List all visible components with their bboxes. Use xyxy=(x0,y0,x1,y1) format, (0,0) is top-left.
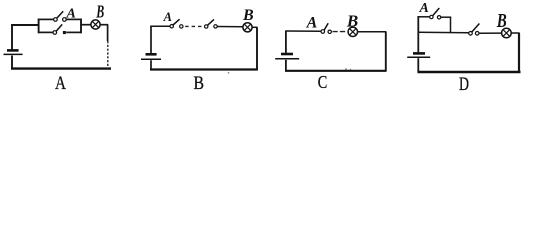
switch S4 blade xyxy=(208,19,215,25)
wire: D bottom xyxy=(418,71,521,73)
wire: B left vertical top xyxy=(150,26,152,53)
lamp L2 circle xyxy=(243,23,252,32)
lamp L4 circle xyxy=(502,28,512,38)
switch S7 pivot circle xyxy=(469,32,473,36)
wire: C dashed to lamp xyxy=(333,31,347,33)
wire: B right edge xyxy=(256,27,258,70)
wire: A right edge solid part xyxy=(107,25,109,41)
wire: D left vertical bottom xyxy=(417,58,419,72)
switch S2 blade xyxy=(56,24,62,31)
svg-text:B: B xyxy=(346,12,358,31)
svg-text:A: A xyxy=(55,74,67,94)
svg-text:D: D xyxy=(459,75,469,95)
svg-text:B: B xyxy=(242,7,254,24)
svg-text:C: C xyxy=(318,72,328,92)
switch S7 right contact circle xyxy=(475,32,479,36)
wire: A right edge faded dashed part xyxy=(107,41,109,68)
wire: D raised branch down xyxy=(450,17,452,33)
battery BT2 short plate xyxy=(146,53,157,56)
wire: C left vertical bottom xyxy=(285,60,287,72)
svg-text:A: A xyxy=(419,1,429,16)
wire: A lamp to right corner xyxy=(100,24,108,26)
wire: A left vertical bottom xyxy=(11,56,13,70)
switch S2 right contact (filled square blob in scan) xyxy=(63,31,66,34)
svg-text:B: B xyxy=(96,1,105,21)
switch S3 blade xyxy=(173,19,180,25)
wire: A box to lamp xyxy=(81,24,91,26)
switch S3 pivot circle xyxy=(170,25,173,28)
wire: B dashed middle xyxy=(185,25,203,27)
lamp L1 circle xyxy=(91,20,100,29)
wire: C bottom xyxy=(285,70,387,72)
svg-text:A: A xyxy=(306,15,318,32)
wire: D right edge xyxy=(518,33,520,73)
switch S5 pivot circle xyxy=(321,30,325,34)
wire: B switch to lamp xyxy=(217,26,243,28)
switch S4 pivot circle xyxy=(205,25,208,28)
switch S2 pivot circle xyxy=(53,31,57,35)
switch S7 blade xyxy=(472,24,480,32)
battery BT4 short plate xyxy=(413,52,425,55)
switch S6 pivot circle xyxy=(430,15,433,18)
lamp L2 cross xyxy=(244,24,251,31)
switch S1 right contact circle xyxy=(63,18,67,22)
svg-text:A: A xyxy=(66,6,76,21)
wire: B lamp to right corner xyxy=(252,26,258,28)
wire: B left vertical bottom xyxy=(150,60,152,70)
lamp L3 cross xyxy=(349,28,356,35)
switch S1 blade xyxy=(57,11,64,18)
switch S6 right contact circle xyxy=(437,16,440,19)
wire: C top left xyxy=(285,30,321,32)
battery BT3 short plate xyxy=(281,53,293,56)
wire: D main top left xyxy=(418,31,469,34)
lamp L4 cross xyxy=(503,30,510,37)
switch S3 right contact circle xyxy=(180,25,183,28)
wire: D switch to lamp xyxy=(479,32,501,34)
battery BT1 short plate xyxy=(7,49,19,52)
wire: A mid left into box xyxy=(11,24,39,26)
battery BT1 long plate xyxy=(4,53,23,55)
scan speck near C bottom wire xyxy=(345,68,347,70)
wire: A bottom xyxy=(11,67,111,69)
wire: A box left edge xyxy=(38,19,40,34)
switch S1 pivot circle xyxy=(54,18,58,22)
wire: C lamp to right corner xyxy=(357,31,386,33)
battery BT4 long plate xyxy=(407,56,430,58)
wire: A box bottom branch left xyxy=(39,31,53,33)
wire: D lamp to right corner xyxy=(511,32,519,34)
lamp L3 circle xyxy=(348,27,357,36)
svg-text:B: B xyxy=(496,11,507,32)
wire: A box bottom branch right xyxy=(66,31,81,33)
battery BT3 long plate xyxy=(275,58,299,60)
wire: D left vertical (raised top to battery) xyxy=(417,16,419,52)
wire: A box top branch right xyxy=(66,18,81,20)
svg-text:A: A xyxy=(163,10,172,24)
wire: B bottom xyxy=(150,68,258,70)
wire: D raised branch right xyxy=(441,16,451,18)
switch S4 right contact circle xyxy=(214,25,217,28)
wire: C right edge xyxy=(385,32,387,72)
switch S6 blade xyxy=(433,8,440,16)
wire: A box right edge xyxy=(80,19,82,34)
svg-text:B: B xyxy=(193,74,204,94)
scan speck near C bottom wire 2 xyxy=(350,69,351,70)
lamp L1 cross xyxy=(92,21,99,28)
wire: B top left xyxy=(150,25,170,27)
battery BT2 long plate xyxy=(141,58,161,60)
wire: A box top branch left xyxy=(39,18,54,20)
switch S5 right contact circle xyxy=(328,30,331,33)
wire: A left vertical top xyxy=(11,25,13,49)
switch S5 blade xyxy=(324,23,328,30)
wire: D raised branch left xyxy=(418,16,430,18)
wire: C left vertical top xyxy=(285,31,287,53)
scan speck right of B label xyxy=(228,72,230,74)
